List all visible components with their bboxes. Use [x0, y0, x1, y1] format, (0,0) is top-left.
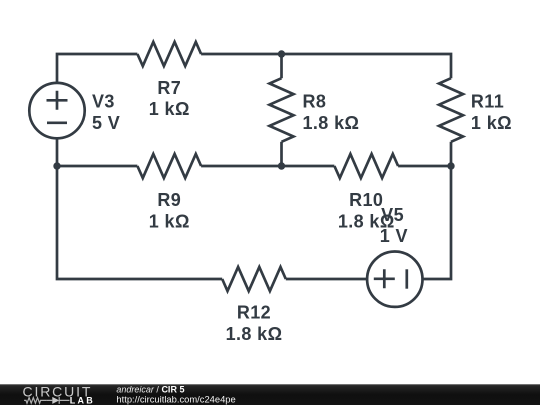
V3 plus sign	[47, 91, 68, 110]
V5 plus sign	[374, 269, 395, 288]
node junction right middle	[447, 162, 454, 169]
wire left vertical middle to bottom corner to R12	[57, 166, 222, 279]
svg-text:R11: R11	[471, 91, 504, 111]
svg-text:http://circuitlab.com/c24e4pe: http://circuitlab.com/c24e4pe	[116, 394, 235, 405]
svg-text:1.8 kΩ: 1.8 kΩ	[303, 113, 360, 133]
node junction R8 bottom	[278, 162, 285, 169]
svg-text:R10: R10	[349, 190, 383, 210]
svg-text:LAB: LAB	[70, 396, 95, 405]
footer bar	[0, 384, 540, 405]
node junction R8 top	[278, 50, 285, 57]
svg-text:V3: V3	[92, 91, 115, 111]
resistor R12	[222, 267, 286, 291]
logo diode triangle	[52, 397, 59, 404]
V3 minus sign	[47, 121, 67, 124]
svg-text:5 V: 5 V	[92, 113, 120, 133]
svg-text:1 kΩ: 1 kΩ	[149, 99, 190, 119]
V5 minus bar	[405, 269, 408, 288]
resistor R11	[439, 78, 463, 142]
svg-text:V5: V5	[381, 205, 404, 225]
svg-text:1 kΩ: 1 kΩ	[471, 113, 512, 133]
wire R12 right to V5 left	[286, 278, 367, 281]
wire R11 bottom lead	[450, 142, 453, 166]
resistor R9	[137, 154, 201, 178]
voltage source V3 circle	[29, 83, 84, 138]
svg-text:R8: R8	[303, 91, 327, 111]
wire R8 bottom lead	[280, 142, 283, 166]
wire R8 top lead	[280, 54, 283, 78]
wire middle from R9 to R10	[201, 165, 334, 168]
resistor R7	[137, 42, 201, 66]
svg-text:1.8 kΩ: 1.8 kΩ	[226, 324, 283, 344]
resistor R8	[270, 78, 294, 142]
voltage source V5 circle	[367, 252, 422, 307]
resistor R10	[334, 154, 398, 178]
svg-text:R9: R9	[157, 190, 181, 210]
wire middle from R10 to right node	[398, 165, 451, 168]
wire top from R7 right to corner down to R11 top	[201, 54, 451, 78]
wire top-left from R7 left to corner down to V3 top	[57, 54, 137, 83]
wire middle from left node to R9	[57, 165, 137, 168]
svg-text:R12: R12	[237, 303, 271, 323]
svg-text:1 kΩ: 1 kΩ	[149, 211, 190, 231]
logo resistor zigzag and diode	[24, 397, 69, 404]
wire V3 bottom to middle wire	[56, 138, 59, 166]
svg-text:1 V: 1 V	[380, 226, 408, 246]
node junction left middle	[53, 162, 60, 169]
svg-text:R7: R7	[157, 78, 181, 98]
wire V5 right to corner up to right node	[422, 166, 451, 279]
